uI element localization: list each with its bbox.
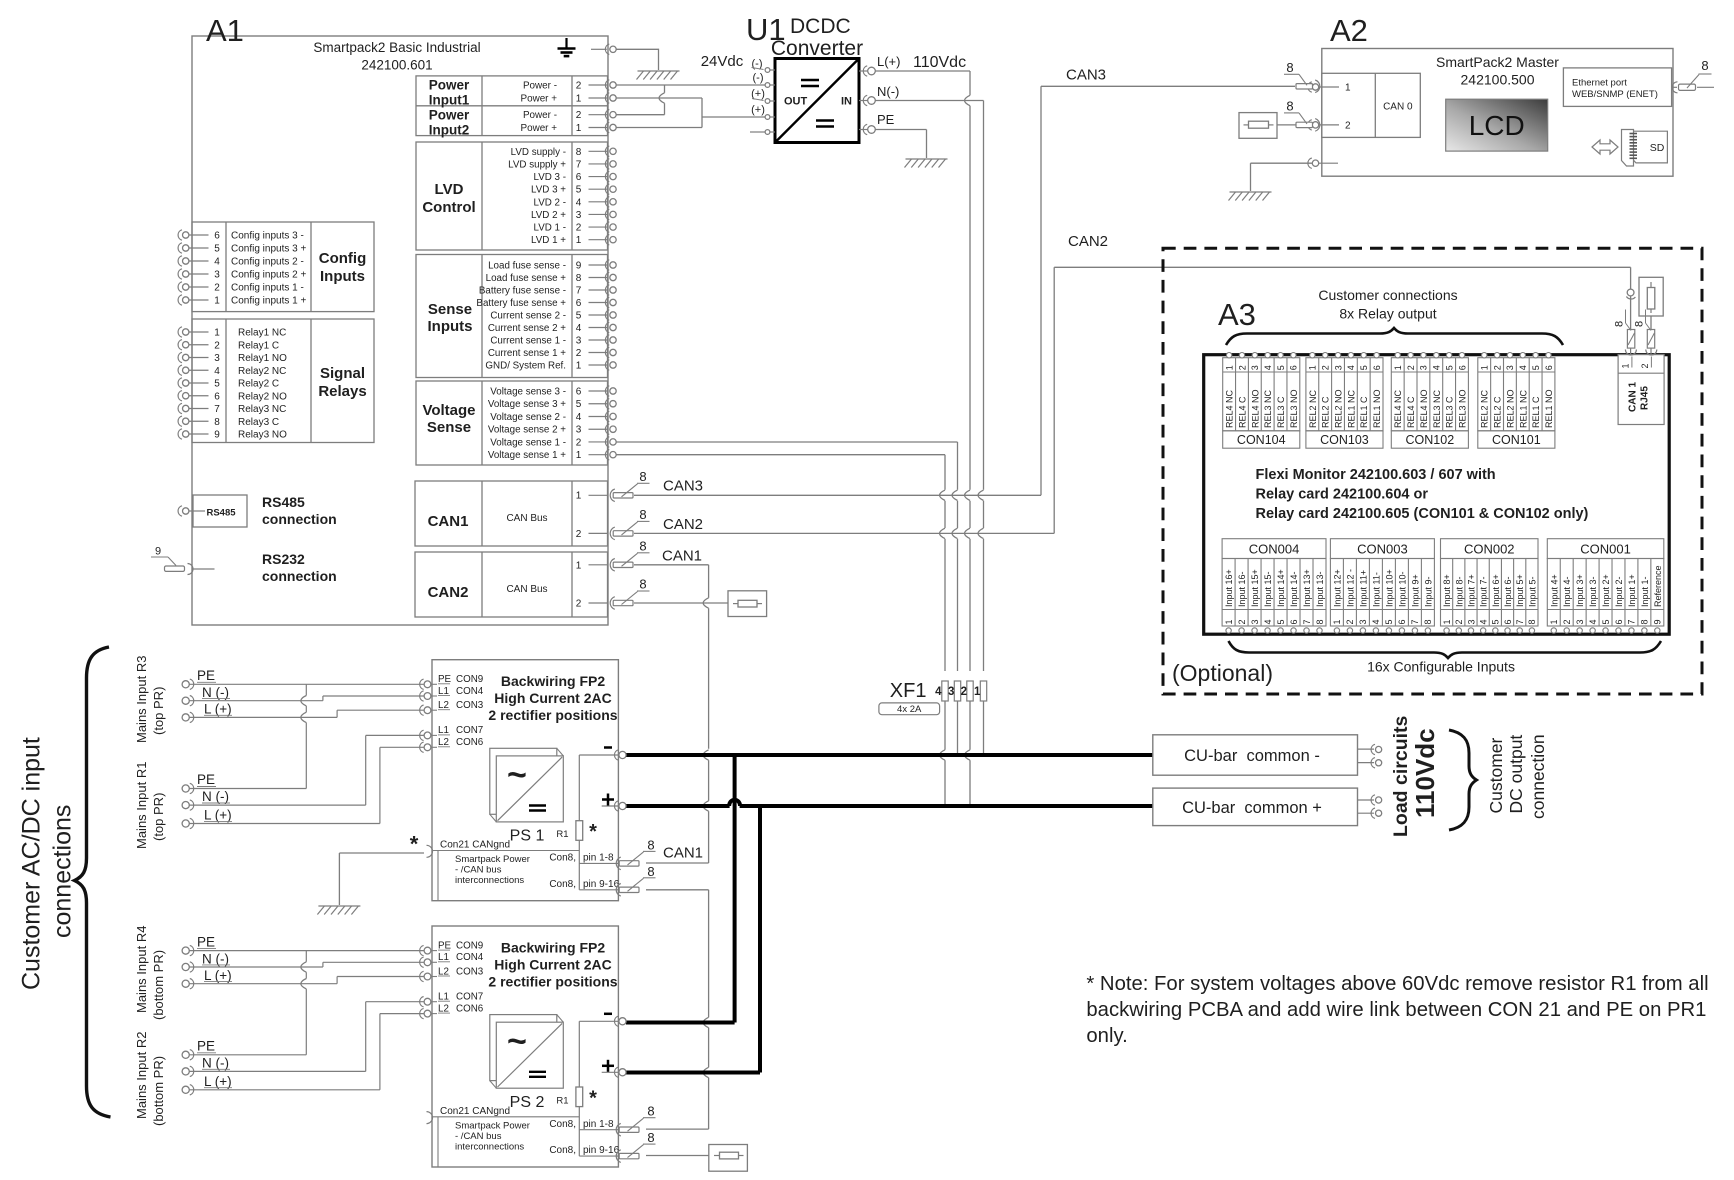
pin L1 CON4 (PS 2) bbox=[420, 952, 484, 967]
svg-text:3: 3 bbox=[1358, 619, 1368, 624]
svg-text:REL1 NC: REL1 NC bbox=[1518, 389, 1528, 428]
svg-text:LVD 1 +: LVD 1 + bbox=[531, 235, 566, 246]
label Load circuits 110Vdc (rotated) bbox=[1390, 715, 1440, 837]
svg-text:242100.601: 242100.601 bbox=[361, 58, 432, 73]
svg-text:1: 1 bbox=[576, 123, 582, 134]
svg-text:CON3: CON3 bbox=[456, 700, 484, 711]
svg-text:LVD 2 +: LVD 2 + bbox=[531, 210, 566, 221]
svg-text:IN: IN bbox=[841, 96, 852, 108]
label Customer AC/DC input connections (rotated) bbox=[18, 737, 77, 990]
pin LVD 5 bbox=[531, 184, 616, 196]
svg-text:3: 3 bbox=[214, 353, 220, 364]
svg-text:1: 1 bbox=[1308, 365, 1318, 370]
wire U1 L(+) to fuse XF1-2 bbox=[876, 71, 971, 671]
svg-text:SD: SD bbox=[1650, 142, 1665, 154]
svg-text:110Vdc: 110Vdc bbox=[913, 54, 966, 71]
pin Sense 2 bbox=[488, 347, 616, 359]
svg-text:Input 7+: Input 7+ bbox=[1466, 574, 1476, 607]
terminal R3 L bbox=[182, 702, 232, 723]
pin Config 5 bbox=[178, 243, 306, 255]
svg-text:8: 8 bbox=[639, 538, 646, 553]
terminator (CAN bus) at A3 bbox=[1639, 277, 1663, 316]
busbar CU-bar common - bbox=[1153, 735, 1358, 775]
pin Voltage sense 3 bbox=[488, 424, 616, 436]
svg-text:LVD 3 -: LVD 3 - bbox=[534, 172, 567, 183]
svg-text:2: 2 bbox=[1237, 365, 1247, 370]
svg-text:SmartPack2 Master: SmartPack2 Master bbox=[1436, 54, 1559, 70]
svg-text:Smartpack Power: Smartpack Power bbox=[455, 1120, 530, 1131]
svg-text:Backwiring FP2: Backwiring FP2 bbox=[501, 673, 605, 689]
svg-text:Config inputs 2 -: Config inputs 2 - bbox=[231, 257, 304, 268]
svg-text:8: 8 bbox=[639, 469, 646, 484]
svg-text:1: 1 bbox=[1480, 365, 1490, 370]
svg-text:4: 4 bbox=[1588, 619, 1598, 624]
pin Relay 2 bbox=[178, 340, 279, 352]
terminal A2 ground bbox=[1308, 158, 1338, 168]
wire R4 PE to PS2 CON9 bbox=[190, 950, 425, 952]
svg-text:* Note: For system voltages ab: * Note: For system voltages above 60Vdc … bbox=[1086, 973, 1708, 995]
svg-text:CON003: CON003 bbox=[1357, 542, 1408, 557]
pin Power + 1 (Power Input) bbox=[520, 122, 616, 134]
svg-text:L (+): L (+) bbox=[204, 1074, 232, 1089]
svg-text:Load fuse sense +: Load fuse sense + bbox=[486, 273, 567, 284]
pin L1 CON4 (PS 1) bbox=[420, 686, 484, 701]
svg-text:CON6: CON6 bbox=[456, 1003, 484, 1014]
svg-text:Input 12+: Input 12+ bbox=[1332, 569, 1342, 607]
svg-text:connections: connections bbox=[49, 805, 77, 938]
svg-text:Voltage sense 2 +: Voltage sense 2 + bbox=[488, 425, 566, 436]
svg-text:CON7: CON7 bbox=[456, 725, 483, 736]
connector 8 at A2 CAN0 pin2 bbox=[1284, 98, 1320, 131]
svg-text:5: 5 bbox=[1601, 619, 1611, 624]
terminal R2 N bbox=[182, 1055, 230, 1076]
pin Voltage sense 2 bbox=[490, 437, 616, 449]
svg-text:2: 2 bbox=[1562, 619, 1572, 624]
fuse group XF1 4x 2A bbox=[879, 680, 940, 715]
label RS485 connection bbox=[262, 494, 337, 527]
wire R2 N to PS2 CON7 bbox=[190, 1002, 425, 1072]
svg-text:8: 8 bbox=[1527, 619, 1537, 624]
box Ethernet port WEB/SNMP (ENET) bbox=[1563, 68, 1671, 107]
svg-text:6: 6 bbox=[576, 298, 582, 309]
label Flexi Monitor / Relay cards bbox=[1256, 467, 1589, 522]
connector 8 Ethernet bbox=[1672, 58, 1714, 93]
wire CAN1 net A1 to PS1 bbox=[610, 538, 708, 863]
svg-text:L (+): L (+) bbox=[204, 968, 232, 983]
svg-text:2: 2 bbox=[1320, 365, 1330, 370]
svg-text:7: 7 bbox=[1302, 619, 1312, 624]
svg-text:~: ~ bbox=[507, 1022, 527, 1060]
svg-text:Current sense 2 -: Current sense 2 - bbox=[490, 311, 566, 322]
svg-text:Inputs: Inputs bbox=[428, 318, 473, 335]
svg-text:PE: PE bbox=[877, 112, 895, 127]
svg-text:N (-): N (-) bbox=[202, 1055, 229, 1070]
fuse connector 8 at RJ45 pin2 bbox=[1634, 310, 1657, 356]
svg-text:Mains Input R1: Mains Input R1 bbox=[134, 762, 149, 849]
svg-text:Input 8-: Input 8- bbox=[1454, 576, 1464, 607]
pin Relay 9 bbox=[178, 429, 287, 441]
svg-text:1: 1 bbox=[576, 235, 582, 246]
svg-text:N(-): N(-) bbox=[877, 84, 899, 99]
svg-text:Input 3+: Input 3+ bbox=[1575, 574, 1585, 607]
svg-text:REL2 C: REL2 C bbox=[1321, 396, 1331, 428]
svg-text:Input 16+: Input 16+ bbox=[1224, 569, 1234, 607]
display LCD bbox=[1446, 99, 1548, 151]
svg-text:Mains Input R2: Mains Input R2 bbox=[134, 1032, 149, 1119]
svg-text:2: 2 bbox=[1640, 363, 1650, 368]
box CAN 0 bbox=[1322, 73, 1421, 137]
svg-text:8: 8 bbox=[1701, 58, 1708, 73]
svg-text:3: 3 bbox=[1333, 365, 1343, 370]
svg-text:1: 1 bbox=[576, 491, 582, 502]
terminal strip CON102 bbox=[1391, 353, 1468, 449]
svg-text:8: 8 bbox=[1286, 98, 1293, 113]
wire + tie to U1 (+) bbox=[702, 116, 765, 118]
terminal strip CON004 bbox=[1222, 539, 1326, 634]
svg-text:Battery fuse sense +: Battery fuse sense + bbox=[476, 298, 566, 309]
svg-text:Battery fuse sense -: Battery fuse sense - bbox=[479, 286, 566, 297]
pin U1 in PE bbox=[859, 112, 895, 135]
pin A2 CAN0 2 bbox=[1308, 120, 1351, 132]
svg-text:1: 1 bbox=[1224, 619, 1234, 624]
svg-text:1: 1 bbox=[1224, 365, 1234, 370]
wire PS2 pin9-16 to terminator bbox=[646, 1155, 709, 1157]
svg-text:CON4: CON4 bbox=[456, 686, 484, 697]
svg-text:9: 9 bbox=[1653, 619, 1663, 624]
wire R2 L to PS2 CON6 bbox=[190, 1014, 425, 1090]
svg-text:Input 5+: Input 5+ bbox=[1515, 574, 1525, 607]
terminals CU-bar + bbox=[1358, 795, 1382, 819]
svg-text:LVD 1 -: LVD 1 - bbox=[534, 223, 567, 234]
svg-text:4: 4 bbox=[1346, 365, 1356, 370]
svg-text:N (-): N (-) bbox=[202, 685, 229, 700]
label Mains Input R1 (top PR) bbox=[134, 762, 166, 849]
svg-text:Input 2+: Input 2+ bbox=[1601, 574, 1611, 607]
svg-text:Power +: Power + bbox=[520, 123, 557, 134]
block A2 SmartPack2 Master 242100.500 bbox=[1322, 49, 1673, 177]
pin LVD 4 bbox=[534, 197, 617, 209]
svg-text:3: 3 bbox=[1466, 619, 1476, 624]
brace customer DC output bbox=[1449, 730, 1477, 830]
svg-text:Voltage sense 1 +: Voltage sense 1 + bbox=[488, 450, 566, 461]
terminal strip CON003 bbox=[1330, 539, 1434, 634]
pin Power + 1 (Power Input) bbox=[520, 93, 616, 105]
brace customer AC/DC input connections bbox=[75, 647, 111, 1117]
svg-text:2: 2 bbox=[576, 110, 582, 121]
table Signal Relays bbox=[192, 319, 374, 443]
svg-text:Con8,: Con8, bbox=[549, 1145, 576, 1156]
svg-text:LVD: LVD bbox=[435, 181, 464, 198]
svg-text:Inputs: Inputs bbox=[320, 268, 365, 285]
svg-text:CON9: CON9 bbox=[456, 940, 483, 951]
svg-text:L (+): L (+) bbox=[204, 702, 232, 717]
svg-text:8: 8 bbox=[647, 1130, 654, 1145]
svg-text:Relay card 242100.604 or: Relay card 242100.604 or bbox=[1256, 487, 1429, 503]
svg-text:- /CAN bus: - /CAN bus bbox=[455, 865, 502, 876]
pin Con8 pin 1-8 (PS 2) bbox=[549, 1104, 655, 1136]
svg-text:RS485: RS485 bbox=[262, 494, 305, 510]
svg-text:Customer: Customer bbox=[1486, 737, 1506, 813]
pin Config 3 bbox=[178, 269, 306, 281]
pin U1 out (+) 3 bbox=[751, 88, 775, 103]
svg-text:2: 2 bbox=[214, 340, 220, 351]
pin Sense 4 bbox=[488, 322, 616, 334]
wire Power Input2 + bbox=[617, 127, 703, 129]
svg-text:Mains Input R4: Mains Input R4 bbox=[134, 926, 149, 1013]
svg-text:5: 5 bbox=[1276, 619, 1286, 624]
svg-text:3: 3 bbox=[1505, 365, 1515, 370]
svg-text:REL4 NO: REL4 NO bbox=[1419, 389, 1429, 428]
svg-text:High Current 2AC: High Current 2AC bbox=[494, 690, 611, 706]
svg-text:5: 5 bbox=[576, 311, 582, 322]
svg-text:Input2: Input2 bbox=[429, 122, 470, 137]
pin U1 out (+) 4 bbox=[751, 104, 775, 119]
svg-text:7: 7 bbox=[576, 286, 582, 297]
svg-text:REL3 NO: REL3 NO bbox=[1457, 389, 1467, 428]
svg-text:1: 1 bbox=[974, 686, 981, 698]
wire junction Power- tie (vertical) bbox=[659, 85, 664, 115]
svg-text:DC output: DC output bbox=[1506, 735, 1526, 814]
svg-text:9: 9 bbox=[214, 430, 220, 441]
pin LVD 6 bbox=[534, 171, 617, 183]
bus wire plus (thick) bbox=[626, 800, 1153, 806]
svg-text:(bottom PR): (bottom PR) bbox=[151, 950, 166, 1020]
connector 8 at A2 CAN0 pin1 bbox=[1284, 60, 1320, 93]
terminal R4 L bbox=[182, 968, 232, 989]
svg-text:REL2 NC: REL2 NC bbox=[1480, 389, 1490, 428]
svg-text:3: 3 bbox=[1419, 365, 1429, 370]
svg-text:Relays: Relays bbox=[318, 383, 366, 400]
pin Con8 pin 9-16 (PS 1) bbox=[549, 864, 655, 896]
terminal R4 PE bbox=[182, 934, 216, 956]
svg-text:2: 2 bbox=[1345, 120, 1351, 131]
svg-text:Power: Power bbox=[429, 108, 470, 123]
svg-text:Power -: Power - bbox=[523, 81, 557, 92]
svg-text:CON101: CON101 bbox=[1492, 433, 1541, 447]
svg-text:2: 2 bbox=[576, 598, 582, 609]
svg-text:Sense: Sense bbox=[428, 301, 472, 318]
svg-text:3: 3 bbox=[214, 270, 220, 281]
svg-text:Input 11-: Input 11- bbox=[1371, 572, 1381, 607]
svg-text:Input 11+: Input 11+ bbox=[1358, 570, 1368, 607]
svg-text:1: 1 bbox=[1442, 619, 1452, 624]
svg-text:CAN2: CAN2 bbox=[663, 516, 703, 533]
label Mains Input R4 (bottom PR) bbox=[134, 926, 166, 1020]
terminal strip CON103 bbox=[1306, 353, 1383, 449]
terminal strip CON104 bbox=[1223, 353, 1300, 449]
svg-text:8: 8 bbox=[1315, 619, 1325, 624]
pin L1 CON7 (PS 2) bbox=[420, 992, 484, 1007]
svg-text:REL3 NC: REL3 NC bbox=[1432, 389, 1442, 428]
svg-text:3: 3 bbox=[1575, 619, 1585, 624]
svg-text:1: 1 bbox=[1345, 83, 1351, 94]
svg-text:Voltage sense 3 -: Voltage sense 3 - bbox=[490, 387, 566, 398]
svg-text:4: 4 bbox=[1478, 619, 1488, 624]
svg-text:6: 6 bbox=[1503, 619, 1513, 624]
pin Sense 8 bbox=[486, 272, 617, 284]
resistor R1 (PS 1) bbox=[556, 821, 597, 843]
svg-text:Input 16-: Input 16- bbox=[1237, 571, 1247, 607]
wire CAN3 net bbox=[610, 86, 1295, 501]
svg-text:PE: PE bbox=[197, 1038, 215, 1053]
svg-text:7: 7 bbox=[1627, 619, 1637, 624]
fuse XF1-4 bbox=[935, 681, 948, 701]
svg-text:CAN3: CAN3 bbox=[1066, 67, 1106, 84]
label Mains Input R3 (top PR) bbox=[134, 656, 166, 743]
svg-text:7: 7 bbox=[1410, 619, 1420, 624]
svg-text:PS 2: PS 2 bbox=[510, 1094, 545, 1111]
svg-text:2: 2 bbox=[961, 686, 967, 698]
pin Config 2 bbox=[178, 282, 304, 294]
svg-text:Backwiring FP2: Backwiring FP2 bbox=[501, 939, 605, 955]
wire fuse2 to + bus bbox=[965, 701, 970, 806]
terminal R3 N bbox=[182, 685, 230, 706]
ground symbol (A1 internal earth) bbox=[558, 38, 607, 56]
svg-text:(Optional): (Optional) bbox=[1172, 660, 1273, 686]
pin A2 CAN0 1 bbox=[1308, 82, 1351, 94]
svg-text:Smartpack Power: Smartpack Power bbox=[455, 854, 530, 865]
svg-text:CON9: CON9 bbox=[456, 674, 483, 685]
svg-text:5: 5 bbox=[1276, 365, 1286, 370]
svg-text:Input 15+: Input 15+ bbox=[1250, 569, 1260, 607]
svg-text:Input 10+: Input 10+ bbox=[1384, 569, 1394, 607]
svg-text:110Vdc: 110Vdc bbox=[1410, 728, 1440, 818]
svg-text:5: 5 bbox=[1359, 365, 1369, 370]
wire Power Input2 - bbox=[617, 114, 665, 116]
svg-text:Relay2 NC: Relay2 NC bbox=[238, 366, 286, 377]
svg-text:2: 2 bbox=[214, 283, 220, 294]
svg-text:4: 4 bbox=[214, 257, 220, 268]
pin - output (PS 1) bbox=[579, 748, 626, 761]
terminal R4 N bbox=[182, 951, 230, 972]
svg-text:3: 3 bbox=[576, 210, 582, 221]
terminal strip CON001 bbox=[1547, 539, 1664, 634]
svg-text:2: 2 bbox=[1345, 619, 1355, 624]
svg-text:Relay3 NC: Relay3 NC bbox=[238, 404, 286, 415]
icon SD card with arrow bbox=[1592, 130, 1667, 167]
svg-text:6: 6 bbox=[1372, 365, 1382, 370]
pin Con21 CANgnd (PS 2) bbox=[427, 1106, 580, 1167]
svg-text:4: 4 bbox=[1263, 619, 1273, 624]
svg-text:CAN1: CAN1 bbox=[663, 845, 703, 862]
svg-text:Power -: Power - bbox=[523, 110, 557, 121]
label Smartpack Power /CAN bus interconnections (PS 2) bbox=[455, 1120, 530, 1152]
pin Relay 5 bbox=[178, 378, 279, 390]
wire Con21 CANgnd to ground (PS1) bbox=[317, 832, 424, 915]
svg-text:1: 1 bbox=[214, 328, 220, 339]
svg-text:Input 7-: Input 7- bbox=[1479, 576, 1489, 607]
svg-text:16x Configurable Inputs: 16x Configurable Inputs bbox=[1367, 659, 1515, 675]
svg-text:PE: PE bbox=[197, 668, 215, 683]
svg-text:Current sense 1 -: Current sense 1 - bbox=[490, 336, 566, 347]
svg-text:1: 1 bbox=[576, 560, 582, 571]
svg-text:connection: connection bbox=[1528, 734, 1548, 819]
pin Relay 8 bbox=[178, 416, 279, 428]
rectifier shelf box Backwiring FP2 (PS 1) bbox=[432, 660, 618, 901]
wire R3 PE to PS1 CON9 bbox=[190, 683, 425, 685]
pin Config 1 bbox=[178, 295, 306, 307]
svg-text:7: 7 bbox=[214, 404, 220, 415]
svg-text:Input 4-: Input 4- bbox=[1562, 576, 1572, 607]
connector RS485 bbox=[178, 495, 247, 527]
svg-text:2: 2 bbox=[1454, 619, 1464, 624]
wire Voltage sense 1+ to fuse XF1-4 bbox=[617, 455, 946, 671]
pin L1 CON7 (PS 1) bbox=[420, 725, 484, 740]
svg-text:4: 4 bbox=[576, 323, 582, 334]
svg-text:1: 1 bbox=[1393, 365, 1403, 370]
svg-text:interconnections: interconnections bbox=[455, 1141, 524, 1152]
svg-text:7: 7 bbox=[1515, 619, 1525, 624]
svg-text:A1: A1 bbox=[206, 13, 244, 48]
pin Relay 4 bbox=[178, 365, 286, 377]
svg-text:REL1 NC: REL1 NC bbox=[1346, 389, 1356, 428]
svg-text:*: * bbox=[589, 1087, 597, 1109]
pin + output (PS 2) bbox=[602, 1060, 626, 1078]
svg-text:Input 8+: Input 8+ bbox=[1442, 574, 1452, 607]
junction CAN2 at A3 entry bbox=[1626, 289, 1635, 299]
busbar CU-bar common + bbox=[1153, 788, 1358, 826]
svg-text:CON002: CON002 bbox=[1464, 542, 1515, 557]
svg-text:interconnections: interconnections bbox=[455, 875, 524, 886]
svg-text:4: 4 bbox=[1518, 365, 1528, 370]
svg-text:PE: PE bbox=[197, 934, 215, 949]
svg-text:A3: A3 bbox=[1218, 297, 1256, 332]
svg-text:connection: connection bbox=[262, 568, 337, 584]
pin PE CON9 (PS 2) bbox=[420, 940, 484, 955]
wire Power Input1 - to U1 (-) bbox=[617, 84, 766, 86]
svg-text:8: 8 bbox=[1640, 619, 1650, 624]
wire R4 L to PS2 CON3 bbox=[190, 977, 425, 984]
svg-text:4: 4 bbox=[1371, 619, 1381, 624]
pin LVD 3 bbox=[531, 209, 616, 221]
terminal R2 L bbox=[182, 1074, 232, 1095]
svg-text:Input 13-: Input 13- bbox=[1315, 571, 1325, 607]
terminal R1 L bbox=[182, 808, 232, 829]
svg-text:9: 9 bbox=[576, 261, 582, 272]
svg-text:8: 8 bbox=[214, 417, 220, 428]
svg-text:LVD 2 -: LVD 2 - bbox=[534, 197, 567, 208]
svg-text:5: 5 bbox=[214, 244, 220, 255]
svg-text:5: 5 bbox=[1491, 619, 1501, 624]
svg-text:1: 1 bbox=[214, 296, 220, 307]
svg-text:8: 8 bbox=[647, 1104, 654, 1119]
svg-text:1: 1 bbox=[1549, 619, 1559, 624]
svg-text:Converter: Converter bbox=[771, 37, 863, 60]
svg-text:5: 5 bbox=[1444, 365, 1454, 370]
pin Power - 2 (Power Input) bbox=[523, 110, 616, 122]
terminal R2 PE bbox=[182, 1038, 216, 1060]
svg-text:DCDC: DCDC bbox=[790, 15, 851, 38]
svg-text:3: 3 bbox=[576, 425, 582, 436]
svg-text:CAN2: CAN2 bbox=[1068, 233, 1108, 250]
wire fuse4 to + bus bbox=[940, 701, 945, 806]
svg-text:4: 4 bbox=[935, 686, 942, 698]
svg-text:2 rectifier positions: 2 rectifier positions bbox=[488, 973, 617, 989]
pin L2 CON3 (PS 2) bbox=[420, 966, 484, 981]
svg-text:CAN Bus: CAN Bus bbox=[506, 513, 547, 524]
svg-text:Relay1 NO: Relay1 NO bbox=[238, 353, 287, 364]
pin LVD 8 bbox=[511, 146, 617, 158]
svg-text:Config: Config bbox=[319, 250, 366, 267]
svg-text:6: 6 bbox=[1544, 365, 1554, 370]
pin Sense 6 bbox=[476, 297, 616, 309]
svg-text:CON102: CON102 bbox=[1406, 433, 1455, 447]
svg-text:6: 6 bbox=[1289, 619, 1299, 624]
wire fuse3 to - bus bbox=[957, 701, 959, 755]
pin Sense 5 bbox=[490, 310, 616, 322]
svg-text:CAN 0: CAN 0 bbox=[1383, 102, 1413, 113]
svg-text:CAN 1: CAN 1 bbox=[1628, 382, 1639, 412]
